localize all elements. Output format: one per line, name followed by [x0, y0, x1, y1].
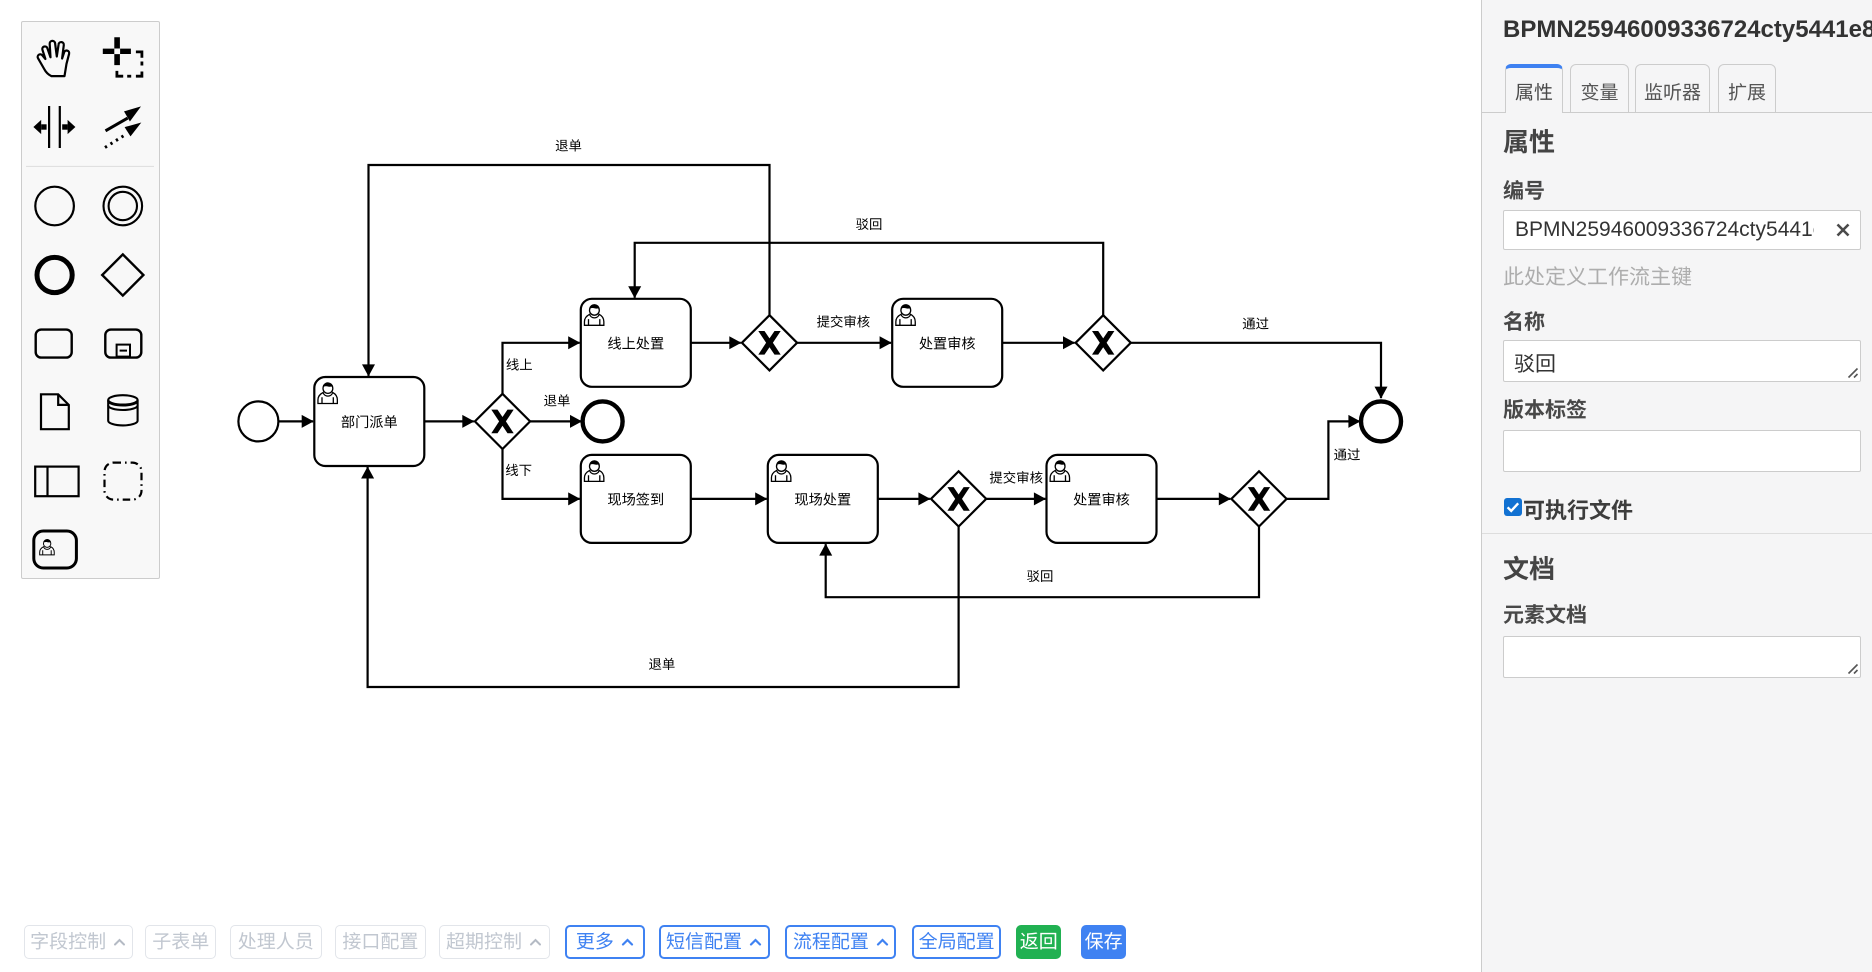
input 编号 — [1503, 210, 1861, 250]
end event E1 退单 — [583, 401, 623, 441]
palette global connect tool — [105, 106, 141, 147]
label 版本标签 — [1503, 394, 1587, 424]
palette user task — [34, 531, 77, 568]
tab 变量 — [1570, 64, 1629, 113]
task 处置审核 — [892, 299, 1002, 387]
tab 监听器 — [1635, 64, 1710, 113]
textarea 名称 — [1503, 340, 1861, 382]
palette participant — [35, 467, 78, 497]
clear icon — [1836, 223, 1850, 237]
wire 处置审核2 to gateway G5 — [1157, 498, 1231, 500]
task 线上处置 — [581, 299, 691, 387]
wire 通过 G3 to end event E2 — [1131, 343, 1381, 398]
svg-text:通过: 通过 — [1242, 316, 1269, 331]
section heading 文档 — [1503, 549, 1555, 586]
palette gateway — [102, 254, 143, 295]
wire 处置审核 to gateway G3 — [1002, 342, 1074, 344]
wire 线下 G1 to 现场签到 — [503, 449, 580, 499]
wire 部门派单 to gateway G1 — [424, 420, 474, 422]
wire 退单 G1 to end event E1 — [530, 420, 581, 422]
palette space tool — [33, 106, 75, 148]
wire 驳回 G5 to 现场处置 — [826, 527, 1259, 598]
label 名称 — [1503, 306, 1545, 336]
checkbox label — [1523, 493, 1633, 525]
svg-text:提交审核: 提交审核 — [817, 315, 871, 330]
wire 提交审核 G2 to 处置审核 — [797, 342, 891, 344]
wire 线上 G1 to 线上处置 — [503, 343, 580, 394]
textarea 元素文档 — [1503, 636, 1861, 678]
start event — [238, 401, 278, 441]
palette lasso tool — [103, 37, 142, 76]
help text — [1503, 261, 1692, 291]
wire 提交审核 G4 to 处置审核2 — [986, 498, 1045, 500]
svg-text:现场处置: 现场处置 — [794, 493, 851, 509]
palette data store — [108, 395, 137, 425]
palette start event — [35, 187, 74, 226]
btn 更多 — [565, 925, 645, 959]
task 部门派单 — [314, 377, 424, 466]
svg-text:退单: 退单 — [555, 138, 582, 153]
svg-text:现场签到: 现场签到 — [607, 493, 664, 509]
gateway G4 — [931, 471, 986, 526]
label 元素文档 — [1503, 599, 1587, 629]
palette task — [36, 330, 72, 358]
tab 属性 — [1505, 64, 1563, 113]
gateway G2 — [742, 315, 797, 370]
end event E2 — [1361, 401, 1401, 441]
checkbox 可执行文件 — [1504, 498, 1522, 516]
palette hand tool — [38, 41, 70, 76]
wire 驳回 G3 to 线上处置 — [635, 243, 1103, 315]
wire 退单 G4 to 部门派单 — [368, 467, 959, 687]
wire 通过 G5 to end event E2 — [1287, 421, 1360, 499]
palette group — [105, 463, 142, 500]
svg-text:退单: 退单 — [544, 393, 571, 408]
panel title — [1503, 16, 1872, 44]
task 现场签到 — [581, 455, 691, 543]
palette separator — [26, 165, 154, 167]
input 版本标签 — [1503, 430, 1861, 472]
task 现场处置 — [768, 455, 878, 543]
task 处置审核 — [1047, 455, 1157, 543]
label 编号 — [1503, 175, 1545, 205]
tab 扩展 — [1718, 64, 1776, 113]
svg-text:线上处置: 线上处置 — [607, 336, 664, 352]
palette end event — [37, 257, 72, 292]
section heading 属性 — [1503, 122, 1555, 159]
btn 保存 — [1081, 925, 1126, 959]
btn 超期控制 — [439, 925, 550, 959]
svg-text:线上: 线上 — [506, 357, 533, 372]
gateway G3 — [1076, 315, 1131, 370]
tab bar bottom line — [1482, 112, 1872, 113]
svg-text:处置审核: 处置审核 — [919, 335, 976, 352]
gateway G1 — [475, 394, 530, 449]
btn 子表单 — [145, 925, 216, 959]
palette intermediate event — [104, 187, 143, 226]
svg-text:驳回: 驳回 — [1027, 569, 1054, 584]
btn 接口配置 — [335, 925, 427, 959]
gateway G5 — [1231, 471, 1286, 526]
wire 线上处置 to gateway G2 — [691, 342, 741, 344]
wire start to 部门派单 — [279, 420, 313, 422]
svg-text:处置审核: 处置审核 — [1073, 492, 1130, 509]
svg-text:退单: 退单 — [649, 657, 676, 672]
btn 全局配置 — [912, 925, 1001, 959]
wire 退单 G2 to 部门派单 — [369, 165, 770, 376]
svg-text:部门派单: 部门派单 — [341, 415, 398, 431]
svg-text:驳回: 驳回 — [856, 217, 883, 232]
palette data object — [41, 394, 69, 429]
svg-text:提交审核: 提交审核 — [989, 470, 1043, 485]
btn 流程配置 — [785, 925, 896, 959]
palette subprocess — [105, 330, 141, 358]
btn 短信配置 — [659, 925, 770, 959]
divider — [1482, 533, 1872, 534]
btn 处理人员 — [230, 925, 322, 959]
wire 现场处置 to gateway G4 — [878, 498, 930, 500]
btn 字段控制 — [24, 925, 133, 959]
svg-text:通过: 通过 — [1334, 448, 1361, 463]
wire 现场签到 to 现场处置 — [691, 498, 767, 500]
svg-text:线下: 线下 — [505, 463, 532, 478]
btn 返回 — [1016, 925, 1061, 959]
